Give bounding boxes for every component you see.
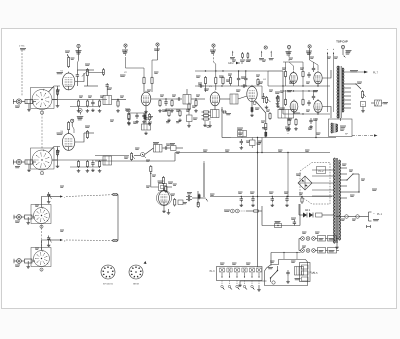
resistor R33 grid [171, 194, 176, 207]
resistor R31 [165, 185, 167, 193]
wire rectifier taps [312, 170, 334, 196]
capacitor C8 osc pad [135, 113, 139, 123]
node switch position indicator 1 [40, 111, 43, 115]
node base label B8 [133, 261, 146, 286]
node top cap symbol [341, 45, 351, 57]
resistor R13 above V3 [204, 76, 206, 92]
capacitor C11 at V4 [262, 93, 265, 103]
capacitor C6 coupling [176, 97, 182, 100]
resistor R19 mid [261, 121, 267, 131]
wire V2 anode chain [151, 98, 176, 99]
resistor R58 dark [144, 114, 153, 121]
node mains label [373, 212, 383, 221]
wire drop to AGC bus [315, 118, 317, 138]
resistor R16 [275, 92, 280, 108]
resistor R43 ballast [318, 236, 326, 242]
node tick label t4 [259, 51, 264, 60]
resistor R51 [229, 76, 231, 86]
capacitor C7 osc [144, 116, 147, 124]
wire drum2 to V5 grid [49, 147, 61, 161]
wire lamp chain [299, 239, 339, 251]
svg-text:B7·106·05: B7·106·05 [103, 284, 114, 286]
node midstrip labels [198, 74, 260, 84]
ground below L4 [27, 164, 31, 172]
transformer T4 IF second [230, 94, 238, 104]
diode GR2 label top [228, 62, 243, 65]
wire AF bus [175, 152, 330, 153]
capacitor C31 output [312, 62, 315, 72]
wire xtal row [95, 148, 183, 156]
connector PL8 second aerial [13, 159, 22, 167]
wire jack link [246, 210, 262, 212]
wire drum to V1 grid [49, 86, 61, 100]
tube V6 BFO [156, 189, 171, 205]
resistor R55 [167, 109, 171, 122]
node phone jacks [224, 209, 246, 213]
connector PL10 fourth socket [14, 259, 22, 267]
wire bus down to switch [257, 138, 258, 268]
capacitor C9 [237, 71, 240, 86]
fuse F1 [345, 215, 349, 219]
transformer T10 small [295, 267, 304, 280]
wire HT rail upper [195, 70, 268, 71]
wire to rectifier box [299, 204, 301, 226]
capacitor C3 bypass [91, 100, 95, 112]
resistor R7 above V2 [143, 76, 145, 92]
resistor R50 under outputs [294, 118, 298, 130]
resistor R28 xtal [131, 152, 136, 161]
resistor R1 screen feed [68, 56, 75, 68]
svg-text:PL.3: PL.3 [210, 270, 216, 273]
svg-text:GR.2: GR.2 [305, 210, 311, 212]
capacitor C17 [163, 146, 169, 149]
tube V4 double diode triode [247, 85, 257, 102]
coil-box outline stage 1 [31, 88, 55, 109]
capacitor C29 [285, 197, 289, 207]
resistor R52 [257, 78, 259, 86]
connector PL9 third socket [14, 215, 22, 223]
diode GR2 metal rectifier [299, 210, 334, 218]
node scatter labels [35, 57, 377, 264]
capacitor C5 [164, 99, 168, 112]
svg-text:c: c [64, 197, 66, 199]
wire T7 out [294, 112, 301, 114]
resistor R11 [194, 99, 198, 112]
wire bfo drop [203, 161, 205, 163]
coil-box outline stage 2 [31, 148, 55, 169]
node PL4 label [310, 272, 316, 275]
wire BFO bus [95, 153, 175, 162]
box mains control unit [265, 260, 308, 286]
tube V10 output lower [314, 99, 322, 112]
resistor R56 [178, 110, 182, 122]
wire V2 cathode [144, 106, 148, 113]
wire v4 top lead [251, 85, 253, 87]
wire V1 anode line [75, 70, 84, 82]
inductor L4 choke [22, 160, 36, 164]
svg-text:SP: SP [345, 134, 348, 136]
lamp LP4 [301, 249, 305, 253]
node V3 label [204, 86, 212, 90]
node tick label t1 [230, 51, 235, 59]
svg-text:a: a [327, 49, 329, 51]
capacitor C13 avc [207, 121, 212, 128]
svg-text:b: b [333, 49, 335, 51]
resistor R18b avc [202, 118, 211, 120]
tube V7 driver upper [290, 71, 298, 84]
wire selector out [347, 187, 360, 193]
node V2 label [120, 72, 127, 76]
resistor R45 ballast [318, 248, 326, 254]
node labels V7-V10 [287, 91, 318, 121]
transformer T1 output core [340, 66, 341, 118]
wire bfo to pot [198, 198, 208, 202]
resistor R39 [284, 98, 286, 106]
tube base diagram B8 [129, 265, 143, 279]
node under-output labels [286, 128, 313, 131]
resistor R23 screen [68, 121, 70, 133]
lamp LP3 [312, 237, 316, 241]
node V1 top cap [65, 51, 70, 56]
switch S1d drum [33, 250, 49, 267]
resistor R17 avc [202, 111, 211, 113]
wire output mid rail [283, 90, 318, 91]
capacitor C12 avc [203, 121, 207, 127]
wire V5 cathode ground [56, 147, 60, 168]
wire drum4 top [42, 240, 49, 251]
resistor R29 [170, 144, 176, 151]
node V4 label [258, 79, 266, 83]
wire mains line [336, 212, 372, 221]
node voltage callout a [262, 128, 267, 129]
svg-text:V2: V2 [124, 72, 127, 74]
wire V4 cathode network [250, 102, 254, 117]
ground stage4 [26, 261, 30, 268]
node tick label t5 [264, 46, 274, 60]
svg-text:+: + [362, 103, 364, 106]
lamp LP1 [301, 237, 305, 241]
node PL3 label [210, 270, 216, 273]
switch SW2 speaker tap [351, 82, 362, 89]
resistor R42 hatched [371, 100, 388, 106]
node PL2 label [317, 167, 326, 174]
svg-text:V4: V4 [263, 79, 266, 81]
node indicator 3 [40, 225, 43, 229]
capacitor C15 [142, 113, 146, 123]
wire stage1 diag [82, 68, 105, 77]
inductor L1 aerial choke [22, 99, 36, 103]
node TOP CAP label [336, 40, 348, 44]
wire V4 to volume pot [256, 101, 266, 122]
wire control box link [238, 281, 266, 287]
wire T1 secondary taps [344, 84, 351, 108]
resistor R37 V7 grid [282, 68, 287, 78]
svg-text:B8·08: B8·08 [133, 284, 139, 286]
resistor R15 above V3 [222, 76, 224, 85]
crystal X1 [158, 181, 167, 191]
wire avc vertical [222, 110, 231, 138]
resistor R35 [198, 194, 200, 200]
resistor R41 [266, 110, 271, 120]
node speaker label [340, 126, 348, 136]
resistor R5 decoupler [98, 100, 102, 113]
svg-text:PL.7: PL.7 [373, 71, 379, 74]
node V6 label [168, 182, 177, 185]
wire outputs to AGC bus [261, 138, 263, 153]
transformer T2 coupling [103, 90, 112, 105]
node voltage callout b [285, 125, 290, 135]
wire drop v4 [261, 86, 262, 153]
inductor L6 choke [21, 259, 35, 263]
node V1 grid cap circle [76, 44, 82, 70]
transformer T9 secondary winding [339, 160, 341, 240]
tube V8 output upper [314, 71, 322, 84]
switch SW1 on-off [268, 266, 278, 284]
wire output block verticals [286, 62, 319, 114]
wire avc junction [221, 107, 231, 115]
lamp LP6 [312, 249, 316, 253]
resistor R12 osc [126, 110, 131, 125]
resistor R27 [98, 160, 102, 172]
capacitor C14 under bus [240, 139, 244, 149]
resistor R40 [302, 98, 304, 106]
wire T4 to V4 [238, 96, 247, 99]
wire bfo out [192, 191, 198, 205]
wire T1 top tap out [344, 71, 379, 75]
transformer T8 speech coil [331, 123, 337, 133]
resistor R57 [188, 103, 190, 116]
resistor R49 under outputs [287, 118, 291, 130]
node fuse lamps above [271, 252, 301, 266]
capacitor C22 [307, 72, 310, 78]
wire stage2 subline [70, 166, 100, 168]
capacitor C25 electrolytic [361, 102, 366, 113]
resistor R34 [178, 200, 187, 205]
svg-text:TOP CAP: TOP CAP [336, 40, 348, 44]
transformer T3 secondary box [211, 110, 220, 118]
wire T1 bottom to speaker box [340, 118, 342, 121]
resistor R54 stage2 left [57, 149, 59, 157]
svg-text:d: d [64, 241, 66, 243]
capacitor C36 in box [286, 270, 290, 283]
wire T2 to V2 grid [112, 99, 127, 100]
resistor R26 [86, 160, 90, 172]
capacitor C32 output [312, 91, 315, 100]
coil-box outline stage 3 [31, 205, 51, 224]
switch box S2 wavechange [217, 267, 263, 281]
switch S1b band drum [32, 149, 52, 170]
switch S1a band drum [32, 89, 52, 110]
node osc junction [129, 110, 147, 116]
node jack J2 [141, 152, 147, 158]
wire stage1 subline [70, 105, 100, 107]
transformer T9 primary winding [334, 158, 336, 243]
wire xtal connections [151, 174, 172, 188]
node labels ab [327, 49, 335, 54]
resistor R8 above V2 [151, 76, 153, 92]
wire lower link row [262, 206, 300, 226]
resistor R38 between [300, 68, 304, 78]
capacitor C30 [291, 218, 296, 226]
tube V1 6K8 RF amplifier [62, 72, 74, 90]
wire gang link S1a-S1b [41, 110, 43, 150]
wire anodes to transformer [323, 70, 331, 118]
ground T9 [335, 243, 339, 249]
wire screened antenna lead [21, 50, 23, 96]
resistor R36 [197, 201, 199, 208]
svg-text:GR.2: GR.2 [228, 62, 234, 65]
resistor R46 ballast [328, 248, 337, 254]
wire anode coupling [84, 70, 98, 86]
capacitor C19 bfo [186, 198, 192, 201]
node tick label t3 [246, 52, 251, 61]
capacitor C20 trimmer [47, 192, 52, 203]
resistor R14 above V3 [215, 76, 217, 90]
box rectifier compartment [300, 163, 330, 205]
potentiometer VR1 volume [265, 96, 271, 109]
node link symbol [367, 225, 371, 228]
inductor L2 osc coil [142, 124, 151, 135]
node tick label t2 [240, 52, 245, 61]
resistor R3 with C2 to ground [77, 100, 81, 113]
resistor R6 grid leak [116, 100, 120, 113]
svg-text:~: ~ [373, 212, 375, 216]
resistor R18 avc [202, 114, 211, 116]
inductor L7 small box [187, 115, 193, 127]
resistor R32 above V6 [162, 176, 164, 191]
switch S2 wafers [219, 268, 261, 278]
resistor R44 ballast [328, 236, 337, 242]
svg-text:2·75λ: 2·75λ [19, 46, 25, 48]
inductor L3 filter choke [237, 128, 247, 138]
capacitor C10 [244, 71, 247, 86]
tube base diagram B7 [101, 265, 115, 279]
resistor R2 anode load [85, 64, 90, 77]
resistor R47 [301, 197, 303, 205]
wire speaker out dashdot [352, 134, 378, 137]
wire join bus x118 [112, 193, 118, 241]
node V5 label [57, 131, 64, 134]
capacitor C24 [276, 95, 280, 105]
svg-text:V3: V3 [209, 86, 212, 88]
wire grid line stage1 [52, 99, 107, 101]
wire V6 cathode [162, 205, 170, 214]
node V1 label [57, 71, 64, 74]
switch S2 lower contacts [221, 285, 255, 290]
resistor R25 [77, 160, 81, 172]
wire drop x288 [287, 152, 288, 197]
resistor R10 [170, 99, 174, 112]
wire wafer drops [222, 281, 259, 285]
wire screens [328, 54, 334, 112]
resistor R4 cathode bias [86, 100, 90, 113]
wire row4 out [48, 239, 118, 243]
node switch position indicator 2 [40, 171, 43, 175]
wire drum3 top [42, 197, 49, 208]
fuse F2 [356, 215, 360, 219]
transformer T7 interstage [278, 108, 294, 118]
node top cap V8 [306, 45, 318, 70]
wire gang link c-d [41, 225, 43, 251]
capacitor C26 [240, 197, 244, 207]
transformer T1 secondary winding [342, 68, 343, 112]
node top cap V2b [152, 43, 160, 76]
ground stage3 [26, 217, 30, 224]
wire into V3 grid [191, 98, 205, 99]
resistor R48 [275, 222, 282, 228]
coil-box outline stage 4 [31, 248, 51, 267]
capacitor C18 bfo [186, 193, 192, 199]
wire output couplings [283, 85, 330, 114]
svg-text:PL.1: PL.1 [377, 213, 383, 216]
wire V5 anode [75, 133, 94, 142]
capacitor C23 [307, 100, 310, 106]
capacitor C27 [251, 197, 255, 207]
ground below L1 [27, 104, 31, 112]
tube V5 second RF [62, 132, 74, 150]
wire grid line stage2 [52, 159, 107, 161]
node small cap above V5 [71, 119, 74, 133]
wire row3 out [48, 195, 118, 200]
resistor R9 [158, 99, 162, 112]
capacitor C4 top [106, 83, 109, 90]
resistor R53 stage1 left [57, 88, 59, 96]
wire AF line [210, 196, 332, 197]
capacitor C28 [271, 197, 275, 207]
box loudspeaker unit [329, 119, 353, 137]
ground switch [257, 285, 261, 291]
svg-text:PL.4: PL.4 [310, 272, 316, 275]
wire T9 right taps [340, 168, 347, 198]
resistor R30 below [150, 165, 152, 174]
transformer T3 IF first [183, 89, 191, 104]
capacitor C1 screen bypass [76, 70, 79, 86]
wire AGC bus [231, 137, 336, 138]
wire output top feed [283, 61, 303, 63]
capacitor C34 [198, 84, 204, 87]
capacitor C16 [91, 160, 95, 172]
transformer T5 coupling [103, 156, 112, 165]
node meter jack M1 [77, 109, 84, 120]
wire heavy drop [203, 163, 205, 197]
node indicator 4 [40, 268, 43, 272]
transformer T1 primary winding [337, 66, 339, 118]
potentiometer VR2 [361, 90, 366, 99]
wire HT right rail [268, 71, 283, 86]
wire coupling rail y86 [195, 85, 262, 86]
tube V3 IF amplifier [210, 91, 220, 106]
node GR1 label [296, 174, 301, 175]
node if2 labels [166, 106, 198, 123]
tube V9 driver lower [290, 100, 298, 113]
resistor R20 mid dark [265, 131, 267, 138]
resistor R21 [125, 109, 131, 124]
connector PL5 terminal block [300, 263, 311, 282]
capacitor C33 under outputs [309, 118, 313, 128]
wire V1 cathode to ground [56, 86, 60, 107]
wire left feed to outputs [268, 71, 284, 114]
svg-text:PL.2: PL.2 [319, 170, 325, 173]
rectifier GR1 bridge [298, 176, 312, 190]
node top cap V2 [122, 44, 144, 76]
wire if2 subline [166, 108, 191, 110]
inductor L5 choke [21, 215, 35, 219]
node V4 diode circle [253, 102, 256, 105]
lamp LP2 [306, 237, 310, 241]
switch SW3 voltage selector [346, 173, 359, 187]
capacitor C35 [241, 84, 247, 87]
node PL5 label [313, 272, 319, 275]
